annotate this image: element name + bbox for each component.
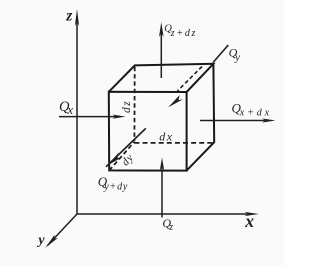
cube hidden edge: back-left vertical (dashed) — [133, 67, 135, 142]
arrow Qx (into left face) — [59, 115, 126, 119]
arrow Qz (into bottom face) — [160, 158, 164, 218]
arrow Qx+dx (out of right face) — [200, 118, 276, 122]
svg-text:x: x — [67, 103, 74, 117]
cube solid edges: top face — [109, 64, 214, 92]
svg-text:y: y — [234, 52, 240, 63]
arrow Qz+dz (out of top face) — [159, 22, 164, 78]
cube hidden edge: back-bottom horizontal (dashed) — [134, 142, 213, 144]
svg-text:dx: dx — [159, 129, 173, 143]
svg-text:z: z — [65, 7, 72, 24]
x-axis — [77, 212, 259, 216]
cube solid edges: right face — [187, 64, 215, 171]
svg-text:y+dy: y+dy — [103, 182, 128, 193]
svg-text:z: z — [168, 222, 173, 233]
z-axis — [75, 9, 79, 214]
cube hidden edge: bottom-left receding (dashed) — [109, 142, 134, 171]
svg-text:x: x — [244, 211, 254, 231]
svg-text:y: y — [36, 233, 45, 248]
y-axis — [45, 214, 77, 248]
svg-text:dz: dz — [121, 100, 133, 113]
svg-text:z+dz: z+dz — [170, 28, 197, 39]
svg-text:x+dx: x+dx — [239, 107, 272, 118]
arrow Qy (into top face corner, partly dashed) — [168, 45, 228, 107]
cube solid edges: front face — [109, 64, 214, 171]
arrow Qy+dy (out of bottom-left) — [106, 128, 146, 167]
